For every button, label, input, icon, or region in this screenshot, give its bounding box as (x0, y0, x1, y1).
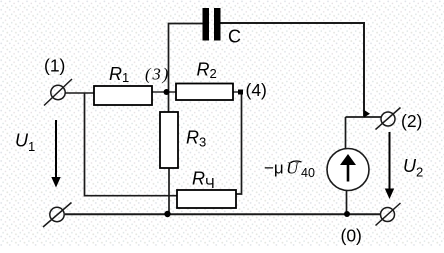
resistor R3 (160, 112, 178, 168)
wire source top riser (345, 117, 347, 149)
wire R3 bottom to rail (168, 168, 170, 214)
svg-text:(3): (3) (145, 65, 170, 84)
node 4 square junction (238, 90, 243, 95)
arrow U2 (389, 132, 391, 190)
node 3 junction dot (164, 89, 170, 95)
svg-text:C: C (228, 27, 241, 47)
capacitor C plates (203, 8, 221, 41)
wire node3 to R2 (168, 91, 176, 93)
wire left down riser and bottom run to R4 (85, 93, 178, 196)
terminal (2) (376, 108, 401, 130)
resistor R2 (176, 84, 233, 101)
wire node3 down to R3 (168, 92, 170, 112)
wire R1 to node3 (152, 91, 166, 93)
svg-text:(0): (0) (341, 226, 362, 246)
wire top-right from capacitor to right riser (220, 23, 364, 117)
wire bottom rail (65, 213, 381, 215)
junction on rail below R3 (164, 211, 170, 217)
arrow U1 (55, 120, 57, 178)
resistor R4 (177, 190, 236, 208)
svg-text:−μ: −μ (264, 159, 284, 178)
wire terminal (1) to R1 (65, 92, 94, 94)
terminal (0) (376, 203, 401, 226)
resistor R1 (94, 86, 152, 105)
wire source bottom riser (346, 190, 348, 214)
junction on rail below source (344, 211, 350, 217)
current source arrow (347, 164, 350, 182)
terminal (1) (44, 79, 72, 106)
svg-text:(2): (2) (401, 111, 422, 131)
current source U1-controlled (327, 149, 369, 191)
wire node4 down riser to R4 (236, 95, 242, 195)
arrowhead at node above source (364, 110, 370, 118)
svg-text:40: 40 (301, 166, 315, 180)
wire top-left from node3 riser to capacitor (169, 24, 204, 93)
terminal bottom-left (43, 203, 72, 228)
svg-text:(1): (1) (44, 56, 65, 76)
wire R2 to node4 (233, 91, 238, 93)
svg-text:(4): (4) (246, 80, 267, 100)
wire horizontal into terminal (2) (346, 116, 382, 118)
